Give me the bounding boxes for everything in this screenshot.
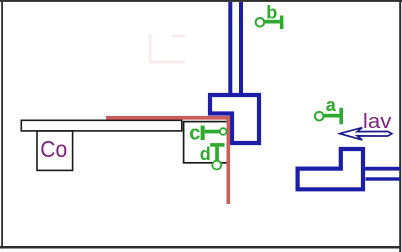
wire lower right line: [366, 177, 401, 180]
wire double wall right line: [239, 2, 243, 94]
key a: [324, 108, 343, 124]
key c: [201, 126, 220, 140]
wire upper right line: [364, 167, 401, 171]
svg-text:d: d: [200, 144, 211, 164]
svg-text:Co: Co: [40, 136, 67, 162]
wire red path: [106, 118, 228, 204]
node lav room (blue step shape): [298, 149, 363, 189]
node counter (thin rectangle): [21, 120, 182, 131]
frame border top: [0, 0, 402, 2]
frame border right: [399, 0, 401, 252]
svg-text:lav: lav: [363, 110, 392, 133]
node Co box: [37, 131, 73, 170]
key d: [210, 143, 224, 161]
frame border left: [1, 0, 3, 249]
arrow to lav: [340, 128, 392, 140]
wire double wall left line: [228, 2, 232, 94]
faint erased smudge: [150, 34, 185, 62]
key b: [265, 16, 284, 30]
svg-text:b: b: [266, 3, 277, 23]
frame border bottom: [0, 246, 401, 249]
node key box: [184, 122, 229, 163]
svg-text:a: a: [326, 95, 337, 115]
svg-text:c: c: [189, 122, 200, 144]
node toilet room (blue L-shape): [210, 95, 259, 143]
